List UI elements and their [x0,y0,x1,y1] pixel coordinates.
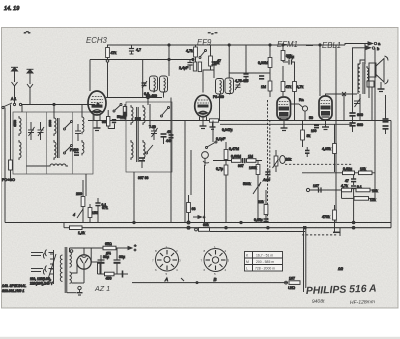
coupling coil bottom [48,164,68,166]
dark blob IF1 top [166,135,174,143]
wire EF9 plate line [203,70,214,93]
svg-text:0310: 0310 [123,112,127,119]
resistor 200 left [76,180,85,223]
svg-text:440: 440 [166,139,172,143]
wire inner left drop [10,105,12,161]
resistor 65 ohm top [103,242,116,250]
svg-text:..~..: ..~.. [24,30,30,34]
svg-text:B: B [214,277,217,282]
antenna 1 [11,67,18,90]
capacitor 660 b [349,123,355,126]
capacitor 0,1 right [351,185,362,223]
capacitor 47 grid EF9 [212,62,217,70]
RF coil column right lower [82,140,84,155]
resistor 51k left [9,160,13,178]
osc coil L6 [131,140,133,160]
svg-text:470k: 470k [322,215,330,219]
svg-text:167: 167 [313,184,319,188]
capacitor bar end [122,271,124,278]
svg-text:47: 47 [217,59,221,63]
output transformer core [363,62,365,94]
svg-text:HF-128mm: HF-128mm [350,299,375,306]
antenna coil L2 [19,140,21,160]
wire grid line [213,160,262,162]
dark cap FM block [70,148,79,155]
resistor 4,7k EFM1 right [293,62,297,121]
svg-text:EBL1: EBL1 [322,41,341,50]
ground EF9 cathode [200,116,207,129]
wire electrolytics down [101,260,117,274]
wire xfmr top [358,60,365,94]
resistor 3k right [301,121,305,148]
svg-text:Ra: Ra [299,98,304,102]
trimmer C1 [28,122,35,140]
ground speaker [378,82,385,92]
wire IF1b down [184,121,186,223]
antenna coil L1 [19,116,21,136]
wire coil block bottom [26,165,48,167]
svg-text:20k: 20k [286,158,292,162]
resistor 0,68M h [231,155,241,163]
wire heater to AZ1 [72,262,78,283]
svg-text:0,05μ: 0,05μ [254,218,263,222]
wire X drop [343,94,345,121]
terminal arrow upper right [345,41,381,46]
svg-text:867: 867 [238,164,244,168]
osc coil L5 [131,105,133,125]
IF transformer 1 can A [150,76,158,92]
wire speaker leads down [360,77,372,121]
wire block to ground [85,174,87,196]
svg-text:140. SPECIAAL: 140. SPECIAAL [2,284,26,288]
resistor 47k screen [106,45,110,98]
svg-text:50: 50 [309,116,313,120]
svg-text:0,62μ: 0,62μ [343,167,352,171]
RF coil box outline [13,112,93,174]
resistor 0,47M phono [224,142,239,165]
svg-text:0,47M: 0,47M [229,147,239,151]
HT winding [70,252,72,267]
tube EBL1 [319,96,332,120]
IF transformer 1 can B [160,76,168,92]
svg-text:660: 660 [357,123,363,127]
svg-text:0,7μ: 0,7μ [216,167,223,171]
svg-text:FM80: FM80 [70,148,79,152]
svg-text:1M: 1M [248,155,253,159]
resistor 50 osc grid [102,110,115,129]
dash between labels [306,45,313,47]
svg-text:4,7k: 4,7k [186,49,193,53]
power transformer core [65,247,67,293]
capacitor coupling dark [238,158,245,168]
tube EF9 [195,95,212,121]
bottom heater bus wire [132,282,288,284]
wire screen EBL1 [335,45,337,223]
speaker frame [369,56,388,84]
wire EBL1 top [319,45,321,96]
voltage selector taps [48,250,56,284]
tube ECH3 [88,91,106,115]
top B+ bus wire [107,44,345,46]
resistor 167 bottom [285,277,300,291]
junction 6,8 [147,96,149,98]
svg-text:L: L [246,266,248,270]
dial lamp wire [116,247,118,249]
svg-text:ECH3: ECH3 [86,36,107,45]
svg-text:530k: 530k [243,182,251,186]
electrolytic EF9 [193,62,196,71]
svg-text:3k: 3k [307,134,311,138]
resistor 4,7k EF9 screen [194,45,198,62]
svg-text:0,047μ: 0,047μ [222,128,232,132]
speaker magnet [367,81,374,87]
resistor 47k EFM1 [281,66,285,96]
osc trimmer 7-20 [151,125,158,140]
antenna selector switch [2,90,95,109]
tone pot 530k [243,178,270,194]
feedback line with terminal [306,184,341,193]
wire switch feed [212,121,214,143]
resistor 10k fb [356,188,378,193]
wave range table [245,252,283,272]
wire 385 drop [385,95,387,112]
ground EBL1 [322,120,329,130]
wire xfmr secondary legs [366,66,368,83]
svg-text:0220: 0220 [13,120,17,127]
svg-text:728 - 2000 m: 728 - 2000 m [255,266,275,270]
oscillator coil box outline [126,102,172,172]
mains plug lower [31,266,47,275]
wire phono down [204,165,206,223]
ground ECH3 cathode [94,115,101,131]
osc padder dark cap [161,134,167,144]
wire IF2 top feed [229,73,270,78]
svg-text:810.081.H40 1: 810.081.H40 1 [2,289,24,293]
electrolytic 30u b [114,248,126,263]
wire IF2 bus drop [228,45,230,73]
trimmer tone top [354,98,361,107]
svg-text:200 - 585 m: 200 - 585 m [256,260,274,264]
svg-text:1,2k: 1,2k [78,231,85,235]
coil box inner dividers [27,112,73,174]
resistor 10k a [359,167,373,175]
capacitor 660 a [349,113,355,116]
svg-text:1/2: 1/2 [338,267,343,271]
svg-text:A 1: A 1 [11,97,16,101]
RF coil L3 [54,116,56,136]
svg-text:387 98: 387 98 [138,176,148,180]
mechanical link dashed [285,164,352,235]
tube socket view A [152,245,181,282]
ground phono [210,121,216,130]
wire right corner [339,228,341,236]
ground EFM1 [281,120,288,131]
svg-text:671: 671 [102,206,108,210]
resistor 1M EFM1 grid [268,81,272,97]
capacitor 50k dark [305,147,310,157]
svg-text:0335: 0335 [48,120,52,127]
wire IF2 down [219,94,221,121]
svg-text:150: 150 [92,211,98,215]
svg-text:EFM1: EFM1 [277,40,298,49]
svg-text:4,85k: 4,85k [322,147,331,151]
svg-text:65Ω: 65Ω [105,242,112,246]
IF2 trimmer arrow [235,83,241,90]
switch EF9 grid [199,50,207,59]
AVC bus wire [88,120,391,122]
resistor 0,62 [343,167,355,175]
osc switch 2 [146,145,154,154]
resistor 450 [105,272,115,280]
wire IF2 link [213,70,215,78]
svg-text:1M: 1M [261,85,266,89]
svg-text:Auto: Auto [262,178,270,182]
svg-text:0,1μ: 0,1μ [287,55,294,59]
phono jack [202,152,209,166]
wire AZ1 right loop [91,248,100,274]
IF1 trimmer arrow [142,81,148,88]
wire plugs to selector [49,253,54,269]
rectifier tube AZ1 [77,255,91,283]
svg-text:0,33M: 0,33M [258,61,268,65]
wire right bus mid [302,172,375,174]
svg-text:0,68M: 0,68M [231,155,241,159]
potentiometer arrow left [73,209,83,218]
wire xfmr top to resistor [70,248,104,252]
svg-text:100: 100 [311,129,317,133]
svg-text:200: 200 [76,192,82,196]
junction blob AVC EBL [311,125,319,133]
svg-text:4,7k: 4,7k [297,85,304,89]
resistor 0,1M phono [216,165,228,223]
svg-text:4: 4 [73,213,75,217]
svg-text:40: 40 [167,130,171,134]
svg-text:10k: 10k [360,167,366,171]
wire IF1 feed [168,45,170,76]
svg-text:16,7 - 51 m: 16,7 - 51 m [256,253,273,257]
wire far right [390,121,392,228]
svg-text:2,4μF: 2,4μF [179,66,189,70]
junction dots bus2 [53,96,149,105]
svg-text:160k: 160k [249,166,257,170]
switch osc [113,104,122,113]
capacitor 0,1 left [95,198,106,223]
shielded grid lead dashed [268,100,270,223]
output transformer secondary [367,68,369,81]
junction blobs mid [133,221,355,229]
wire osc mid down [147,98,149,106]
junction X anode [342,92,346,96]
resistor 1,2k bottom [64,223,85,236]
svg-text:450: 450 [106,277,112,281]
wire terminal drop [364,44,366,65]
wire osc down [133,172,135,223]
capacitor 0,1uF EFM1 [283,59,295,64]
terminal bar 470k [333,231,341,233]
resistor 30k EF9 [209,45,213,70]
resistor 68 mid [187,195,196,223]
osc cap 500 [139,158,145,168]
IF transformer 2 can A [216,79,224,95]
osc coil L8 [143,140,145,160]
ground screw transformer [67,286,83,295]
output transformer primary [358,64,360,92]
osc switch contact [161,107,170,118]
wire right tall [374,48,376,199]
resistor 160k [249,161,260,223]
svg-text:47k: 47k [286,85,292,89]
svg-text:110, 125(140),: 110, 125(140), [30,277,51,281]
phono switch [206,137,227,149]
resistor 4,7k fb [341,184,352,192]
grid cap wire ECH3 [89,60,91,92]
core lines L3 [58,118,60,158]
wire AZ1 cathode to caps [91,261,100,263]
resistor 27 grid stopper [210,119,219,122]
potentiometer Ra circle [291,104,308,121]
svg-text:AZ 1: AZ 1 [94,284,110,293]
svg-text:167: 167 [289,277,295,281]
svg-text:EF9: EF9 [197,38,212,47]
wire caps chain [352,48,354,132]
antenna 2 [27,69,34,93]
wire fb joints [342,190,376,198]
trimmer C2 [38,122,45,140]
resistor 30k EFM1 [281,45,285,62]
tube socket view B [201,245,230,282]
svg-text:PO+GO: PO+GO [2,178,15,182]
resistor 150 left [88,204,98,223]
osc coil L7 [143,105,145,125]
AVC lower bus wire [220,123,352,125]
resistor 485k [333,124,337,172]
osc coil core lines [137,107,139,162]
resistor 22k [258,190,268,223]
resistor 12k fb [354,197,376,202]
terminal arrow HT plus [116,243,137,251]
volume pot 20k circle [280,156,292,164]
feedback bus wire [210,231,305,233]
capacitor 5000 dark [265,168,270,179]
osc box inner vertical [149,104,151,128]
resistor 0,33M EFM1 [268,45,272,81]
RF coil column right [82,115,84,134]
svg-text:A: A [164,277,168,282]
svg-text:9408t: 9408t [312,299,325,305]
wire AZ1 anode top [83,248,85,255]
wire vertical pair to title [304,226,306,292]
chassis ground bus wire [5,222,391,224]
capacitor 0,05u [254,218,269,222]
svg-text:0,1μF: 0,1μF [216,137,226,141]
IF transformer 2 can B [225,78,234,94]
tube EFM1 [277,97,291,120]
svg-text:P3-400: P3-400 [213,95,224,99]
resistor 68k feedback [195,223,210,231]
volume pot 1M [273,150,279,172]
wire IF1 secondary down [163,92,165,98]
resistor 30k cathode [198,62,201,72]
wire bottom bus ticks [181,278,198,284]
wave switch contacts [64,121,73,155]
capacitor 100 IF2 [243,45,248,80]
resistor 0,1M osc [123,104,126,121]
svg-text:14. 19: 14. 19 [4,6,19,12]
terminal circle xfmr [70,250,73,253]
junction dots top bus [168,44,321,46]
resistor 470k [333,205,337,232]
svg-text:22k: 22k [258,200,264,204]
resistor 1M h [247,155,257,163]
svg-text:50: 50 [102,120,106,124]
svg-text:220(230),245 V: 220(230),245 V [30,282,54,286]
heater winding [70,272,72,283]
svg-text:30μ: 30μ [119,255,125,259]
wire ECH3 anode to IF1 [106,97,162,99]
svg-text:4,7k: 4,7k [341,184,348,188]
capacitor 47 right [345,175,356,185]
terminal small right of 68 [193,216,205,220]
padder caps [75,124,81,141]
RF coil L4 [54,140,56,160]
svg-text:68k: 68k [203,223,209,227]
wire screen drop [142,60,144,98]
svg-text:~ .. ~: ~ .. ~ [208,30,218,35]
svg-text:30μ: 30μ [103,255,109,259]
wire EBL1 plate up [326,94,358,96]
wire 450 row [98,262,129,274]
capacitor bank right EBL [383,112,389,134]
terminal arrow lower right [352,46,380,51]
B- return bus wire [82,227,391,229]
svg-text:47k: 47k [111,51,117,55]
svg-text:U/Ω: U/Ω [288,285,295,290]
svg-text:4,7: 4,7 [136,48,141,52]
wire box top entries [54,105,82,117]
capacitor 25u cathode [259,76,264,79]
capacitor 2uF EF9 [187,60,192,69]
svg-text:47: 47 [345,179,349,183]
mains plug upper [31,250,47,259]
wire left drop [4,108,6,223]
capacitor 4,7 decoupling [129,45,134,54]
capacitor 50pF osc [112,115,125,122]
power transformer primary [60,255,62,281]
wire switch to box [21,105,23,113]
wire EF9 AVC [189,68,191,70]
svg-text:M: M [246,260,249,264]
svg-text:68: 68 [192,207,196,211]
electrolytic 30u a [98,255,110,263]
